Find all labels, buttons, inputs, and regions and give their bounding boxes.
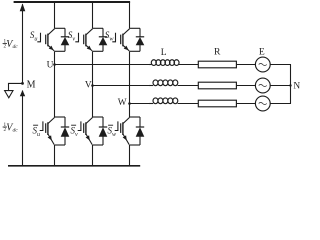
node N junction dot (middle row): [289, 84, 291, 86]
wire DC-link vertical lower (left, arrow to bottom rail): [22, 91, 24, 166]
svg-text:W: W: [118, 98, 127, 108]
wire bottom bracket of Sv (upper switch leg V): [93, 50, 104, 52]
wire negative DC rail (bottom): [8, 165, 140, 167]
diode D2 (upper leg 2) (antiparallel, cathode bar + filled triangle): [99, 28, 108, 51]
wire top bracket of Su (upper switch leg U): [55, 27, 66, 29]
node W junction dot: [128, 102, 131, 105]
wire positive DC rail (top): [14, 1, 131, 3]
wire bottom bracket of S̄u (lower switch leg U): [55, 144, 66, 146]
svg-text:V: V: [85, 81, 92, 91]
resistor R row V (phase b): [198, 82, 236, 89]
label S̄v (lower switch): [71, 125, 79, 138]
ground (earth symbol at M): [5, 91, 13, 98]
wire DC-link vertical upper (left, top rail to node M): [22, 4, 24, 83]
diode D3 (upper leg 3) (antiparallel, cathode bar + filled triangle): [136, 28, 145, 51]
svg-text:U: U: [47, 61, 54, 71]
wire leg 1 from top rail to upper cell: [54, 2, 56, 28]
transistor IGBT S̄u (lower switch leg U): [40, 117, 55, 144]
wire phase U from node to inductor: [55, 64, 150, 66]
wire top bracket of Sv (upper switch leg V): [93, 27, 104, 29]
resistor R row W (phase c): [198, 100, 236, 107]
wire leg 3 from top rail to upper cell: [129, 2, 131, 28]
AC source E row W (phase c) (circle with sine): [255, 96, 270, 111]
wire neutral vertical N: [290, 65, 292, 104]
svg-text:dc: dc: [13, 44, 19, 50]
wire top bracket of Sw (upper switch leg W): [130, 27, 141, 29]
wire resistor to source row V (phase b): [236, 85, 255, 87]
wire top bracket of S̄v (lower switch leg V): [93, 116, 104, 118]
wire source to neutral line row V (phase b): [270, 85, 291, 87]
AC source E row V (phase b) (circle with sine): [255, 78, 270, 93]
svg-text:R: R: [214, 47, 221, 58]
svg-text:E: E: [259, 46, 265, 57]
wire node M to ground: [9, 83, 23, 90]
transistor IGBT Sv (upper switch leg V): [75, 29, 92, 51]
svg-text:dc: dc: [13, 128, 19, 134]
wire leg 1 lower cell to bottom rail: [54, 145, 56, 166]
voltage arrow upper 1/2Vdc (arrowhead up at top rail): [20, 3, 26, 11]
voltage arrow lower 1/2Vdc (arrowhead up below node M): [20, 90, 25, 96]
wire phase W from node to inductor: [130, 103, 150, 105]
wire resistor to source row U (phase a): [236, 64, 255, 66]
wire leg 2 from top rail to upper cell: [92, 2, 94, 28]
wire bottom bracket of Sw (upper switch leg W): [130, 50, 141, 52]
svg-text:N: N: [293, 82, 300, 92]
wire leg 2 upper cell to node and to lower cell: [92, 51, 94, 117]
wire leg 3 lower cell to bottom rail: [129, 145, 131, 166]
diode D6 (lower leg 3) (antiparallel, cathode bar + filled triangle): [136, 117, 145, 145]
wire source to neutral line row U (phase a): [270, 64, 291, 66]
diode D5 (lower leg 2) (antiparallel, cathode bar + filled triangle): [99, 117, 108, 145]
node V junction dot: [91, 84, 94, 87]
wire resistor to source row W (phase c): [236, 103, 255, 105]
wire bottom bracket of S̄v (lower switch leg V): [93, 144, 104, 146]
wire leg 1 upper cell to node and to lower cell: [54, 51, 56, 117]
wire leg 2 lower cell to bottom rail: [92, 145, 94, 166]
wire bottom bracket of Su (upper switch leg U): [55, 50, 66, 52]
inductor L row U (phase a): [149, 60, 198, 66]
wire source to neutral line row W (phase c): [270, 103, 291, 105]
diode D1 (upper leg 1) (antiparallel, cathode bar + filled triangle): [61, 28, 70, 51]
diode D4 (lower leg 1) (antiparallel, cathode bar + filled triangle): [61, 117, 70, 145]
node M junction dot: [21, 82, 24, 85]
transistor IGBT S̄w (lower switch leg W): [115, 117, 130, 144]
transistor IGBT Sw (upper switch leg W): [112, 29, 129, 51]
wire top bracket of S̄u (lower switch leg U): [55, 116, 66, 118]
wire bottom bracket of S̄w (lower switch leg W): [130, 144, 141, 146]
node U junction dot: [53, 63, 56, 66]
AC source E row U (phase a) (circle with sine): [255, 57, 270, 72]
svg-text:M: M: [27, 79, 36, 90]
label S̄u (lower switch): [33, 125, 41, 138]
resistor R row U (phase a): [198, 61, 236, 68]
wire leg 3 upper cell to node and to lower cell: [129, 51, 131, 117]
wire top bracket of S̄w (lower switch leg W): [130, 116, 141, 118]
label S̄w (lower switch): [108, 125, 118, 138]
inductor L row W (phase c): [149, 98, 198, 104]
svg-text:L: L: [161, 47, 167, 58]
inductor L row V (phase b): [149, 80, 198, 86]
transistor IGBT Su (upper switch leg U): [37, 29, 54, 51]
wire phase V from node to inductor: [93, 85, 150, 87]
transistor IGBT S̄v (lower switch leg V): [78, 117, 93, 144]
